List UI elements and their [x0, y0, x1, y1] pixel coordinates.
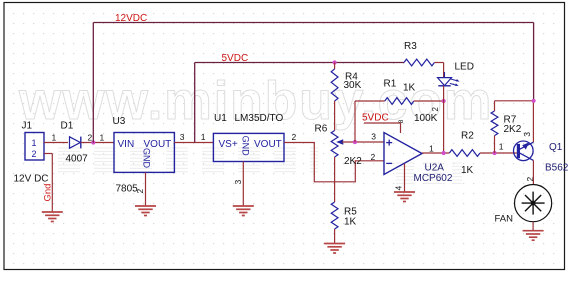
ground (R5) — [324, 243, 345, 245]
sensor U1 LM35D/TO — [213, 113, 284, 161]
svg-text:2: 2 — [371, 152, 376, 162]
svg-text:12V DC: 12V DC — [14, 173, 49, 184]
svg-text:R2: R2 — [461, 130, 474, 141]
wire LED cathode to output node — [443, 86, 445, 153]
svg-text:100K: 100K — [414, 113, 438, 124]
wire 12VDC rail top — [93, 22, 533, 24]
svg-text:FAN: FAN — [495, 213, 514, 224]
svg-text:4: 4 — [393, 186, 403, 191]
wire 5VDC riser — [194, 63, 196, 143]
junction: base node — [492, 151, 496, 155]
svg-text:1: 1 — [201, 132, 206, 142]
resistor R3 — [404, 41, 444, 66]
svg-text:1K: 1K — [403, 83, 416, 94]
svg-text:1K: 1K — [344, 216, 357, 227]
svg-text:U3: U3 — [113, 116, 126, 127]
svg-text:U1: U1 — [214, 113, 227, 124]
op-amp U2A MCP602 — [384, 133, 453, 184]
pin 4 stem (op-amp gnd) — [404, 164, 406, 193]
svg-text:MCP602: MCP602 — [414, 173, 453, 184]
junction: 12VDC / R7 / emitter — [532, 99, 536, 103]
svg-text:LED: LED — [455, 61, 474, 72]
svg-text:R1: R1 — [384, 79, 397, 90]
svg-text:3: 3 — [180, 132, 185, 142]
svg-text:R6: R6 — [315, 123, 328, 134]
connector J1 — [14, 121, 49, 185]
svg-text:2: 2 — [32, 149, 37, 159]
wire pot bottom to R5 — [334, 157, 336, 202]
regulator U3 7805 — [113, 116, 175, 195]
ground (U3) — [135, 205, 156, 207]
junction: output node — [442, 151, 446, 155]
svg-text:2K2: 2K2 — [504, 124, 522, 135]
svg-text:2: 2 — [135, 189, 145, 194]
fan ground stem — [532, 222, 534, 231]
LED — [431, 61, 474, 111]
pin 3 stem (U1 GND) — [242, 162, 244, 207]
svg-text:1: 1 — [32, 138, 37, 148]
svg-text:VS+: VS+ — [219, 139, 238, 150]
diode D1 4007 — [61, 121, 89, 165]
svg-text:1: 1 — [100, 132, 105, 142]
junction: R1 to LED cathode line — [442, 99, 446, 103]
svg-text:3: 3 — [371, 131, 376, 141]
ground (J1) — [42, 211, 63, 213]
svg-text:1K: 1K — [461, 165, 474, 176]
wire 5VDC rail — [195, 62, 404, 64]
svg-text:3: 3 — [233, 180, 243, 185]
op-amp output wire — [422, 152, 449, 154]
svg-text:1: 1 — [429, 143, 434, 153]
wire U1 VOUT to op-amp pin 2 — [284, 143, 384, 182]
svg-text:2: 2 — [431, 107, 440, 112]
resistor R7 2K2 — [491, 101, 533, 153]
wire Q1 collector to fan — [532, 160, 534, 184]
ground (U1) — [233, 205, 254, 207]
svg-text:1: 1 — [499, 142, 504, 152]
svg-text:2: 2 — [292, 132, 297, 142]
wire J1 pin1 to D1 anode — [44, 142, 68, 144]
resistor R4 30K — [331, 63, 361, 131]
svg-text:R3: R3 — [404, 41, 417, 52]
svg-text:B562: B562 — [545, 163, 569, 174]
wire 5VDC to op-amp pin 8 — [364, 122, 401, 124]
svg-text:3: 3 — [522, 132, 532, 137]
svg-text:Q1: Q1 — [549, 142, 563, 153]
wire D1 cathode to U3 VIN — [81, 142, 114, 144]
svg-text:LM35D/TO: LM35D/TO — [235, 113, 284, 124]
svg-text:2K2: 2K2 — [344, 156, 362, 167]
wire 12VDC drop to Q1 emitter / R7 — [533, 23, 535, 101]
wire U3 VOUT to U1 VS+ — [174, 142, 213, 144]
resistor R1 1K — [355, 79, 444, 143]
svg-text:1: 1 — [52, 133, 57, 143]
pin 2 stem (U3 GND) — [145, 172, 147, 206]
svg-text:GND: GND — [240, 136, 250, 157]
svg-text:4007: 4007 — [66, 153, 89, 164]
svg-text:8: 8 — [398, 119, 405, 123]
motor FAN — [495, 185, 552, 225]
transistor Q1 B562 — [514, 132, 569, 182]
ground (op-amp) — [394, 191, 415, 193]
svg-text:Gnd: Gnd — [43, 184, 54, 202]
resistor R2 1K — [449, 130, 516, 175]
svg-text:GND: GND — [141, 148, 151, 169]
svg-text:VOUT: VOUT — [254, 139, 282, 150]
wire J1 pin2 to ground — [44, 153, 52, 155]
junction: 5VDC at R4 — [333, 60, 337, 64]
ground (fan) — [523, 230, 544, 232]
junction: wiper / R1 feedback / op-amp pin3 — [353, 140, 357, 144]
svg-text:VIN: VIN — [118, 139, 135, 150]
potentiometer R6 2K2 — [315, 123, 385, 167]
wire 12VDC drop to D1/U3 junction — [92, 23, 94, 143]
junction: 12VDC at D1/U3 — [91, 140, 95, 144]
svg-text:5VDC: 5VDC — [362, 113, 389, 124]
svg-text:D1: D1 — [61, 121, 74, 132]
resistor R5 1K — [331, 202, 357, 244]
svg-text:30K: 30K — [344, 80, 362, 91]
svg-text:J1: J1 — [22, 121, 33, 132]
